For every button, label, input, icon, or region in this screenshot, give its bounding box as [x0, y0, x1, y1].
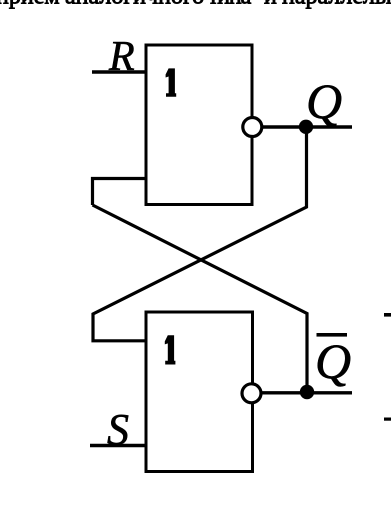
gate U1 function label 1 [166, 68, 177, 96]
gate U2 (bottom OR/NOR gate) body [146, 312, 253, 472]
wire vertical from Q junction down and diagonal to bottom gate (crossing) [93, 127, 307, 341]
wire S input [90, 444, 146, 447]
right margin artifact dash 2 [384, 418, 391, 421]
gate U1 (top OR/NOR gate) body [146, 45, 252, 205]
inverter bubble U2 output [242, 384, 261, 403]
node Qbar overline [317, 333, 348, 337]
inverter bubble U1 output [243, 118, 262, 137]
wire Qbar output [252, 391, 352, 394]
svg-text:прием: прием [0, 0, 60, 10]
wire diagonal Qbar feedback to top gate (crossing) [93, 205, 308, 391]
svg-text:аналогичного: аналогичного [65, 0, 204, 10]
right margin artifact dash 1 [384, 313, 391, 317]
svg-text:R: R [108, 34, 135, 80]
wire R input [92, 70, 146, 73]
gate U2 function label 1 [165, 335, 176, 364]
svg-text:Q: Q [315, 333, 351, 389]
wire Q output [252, 125, 352, 128]
junction node Q [299, 120, 313, 134]
svg-text:типа: типа [208, 0, 252, 10]
wire top gate second input with bend [93, 179, 147, 206]
svg-text:Q: Q [306, 73, 342, 129]
clipped caption text line (top edge) [0, 0, 391, 10]
svg-text:S: S [107, 405, 129, 454]
junction node Qbar [300, 385, 314, 399]
svg-text:параллельного: параллельного [282, 0, 391, 10]
svg-text:и: и [264, 0, 277, 10]
